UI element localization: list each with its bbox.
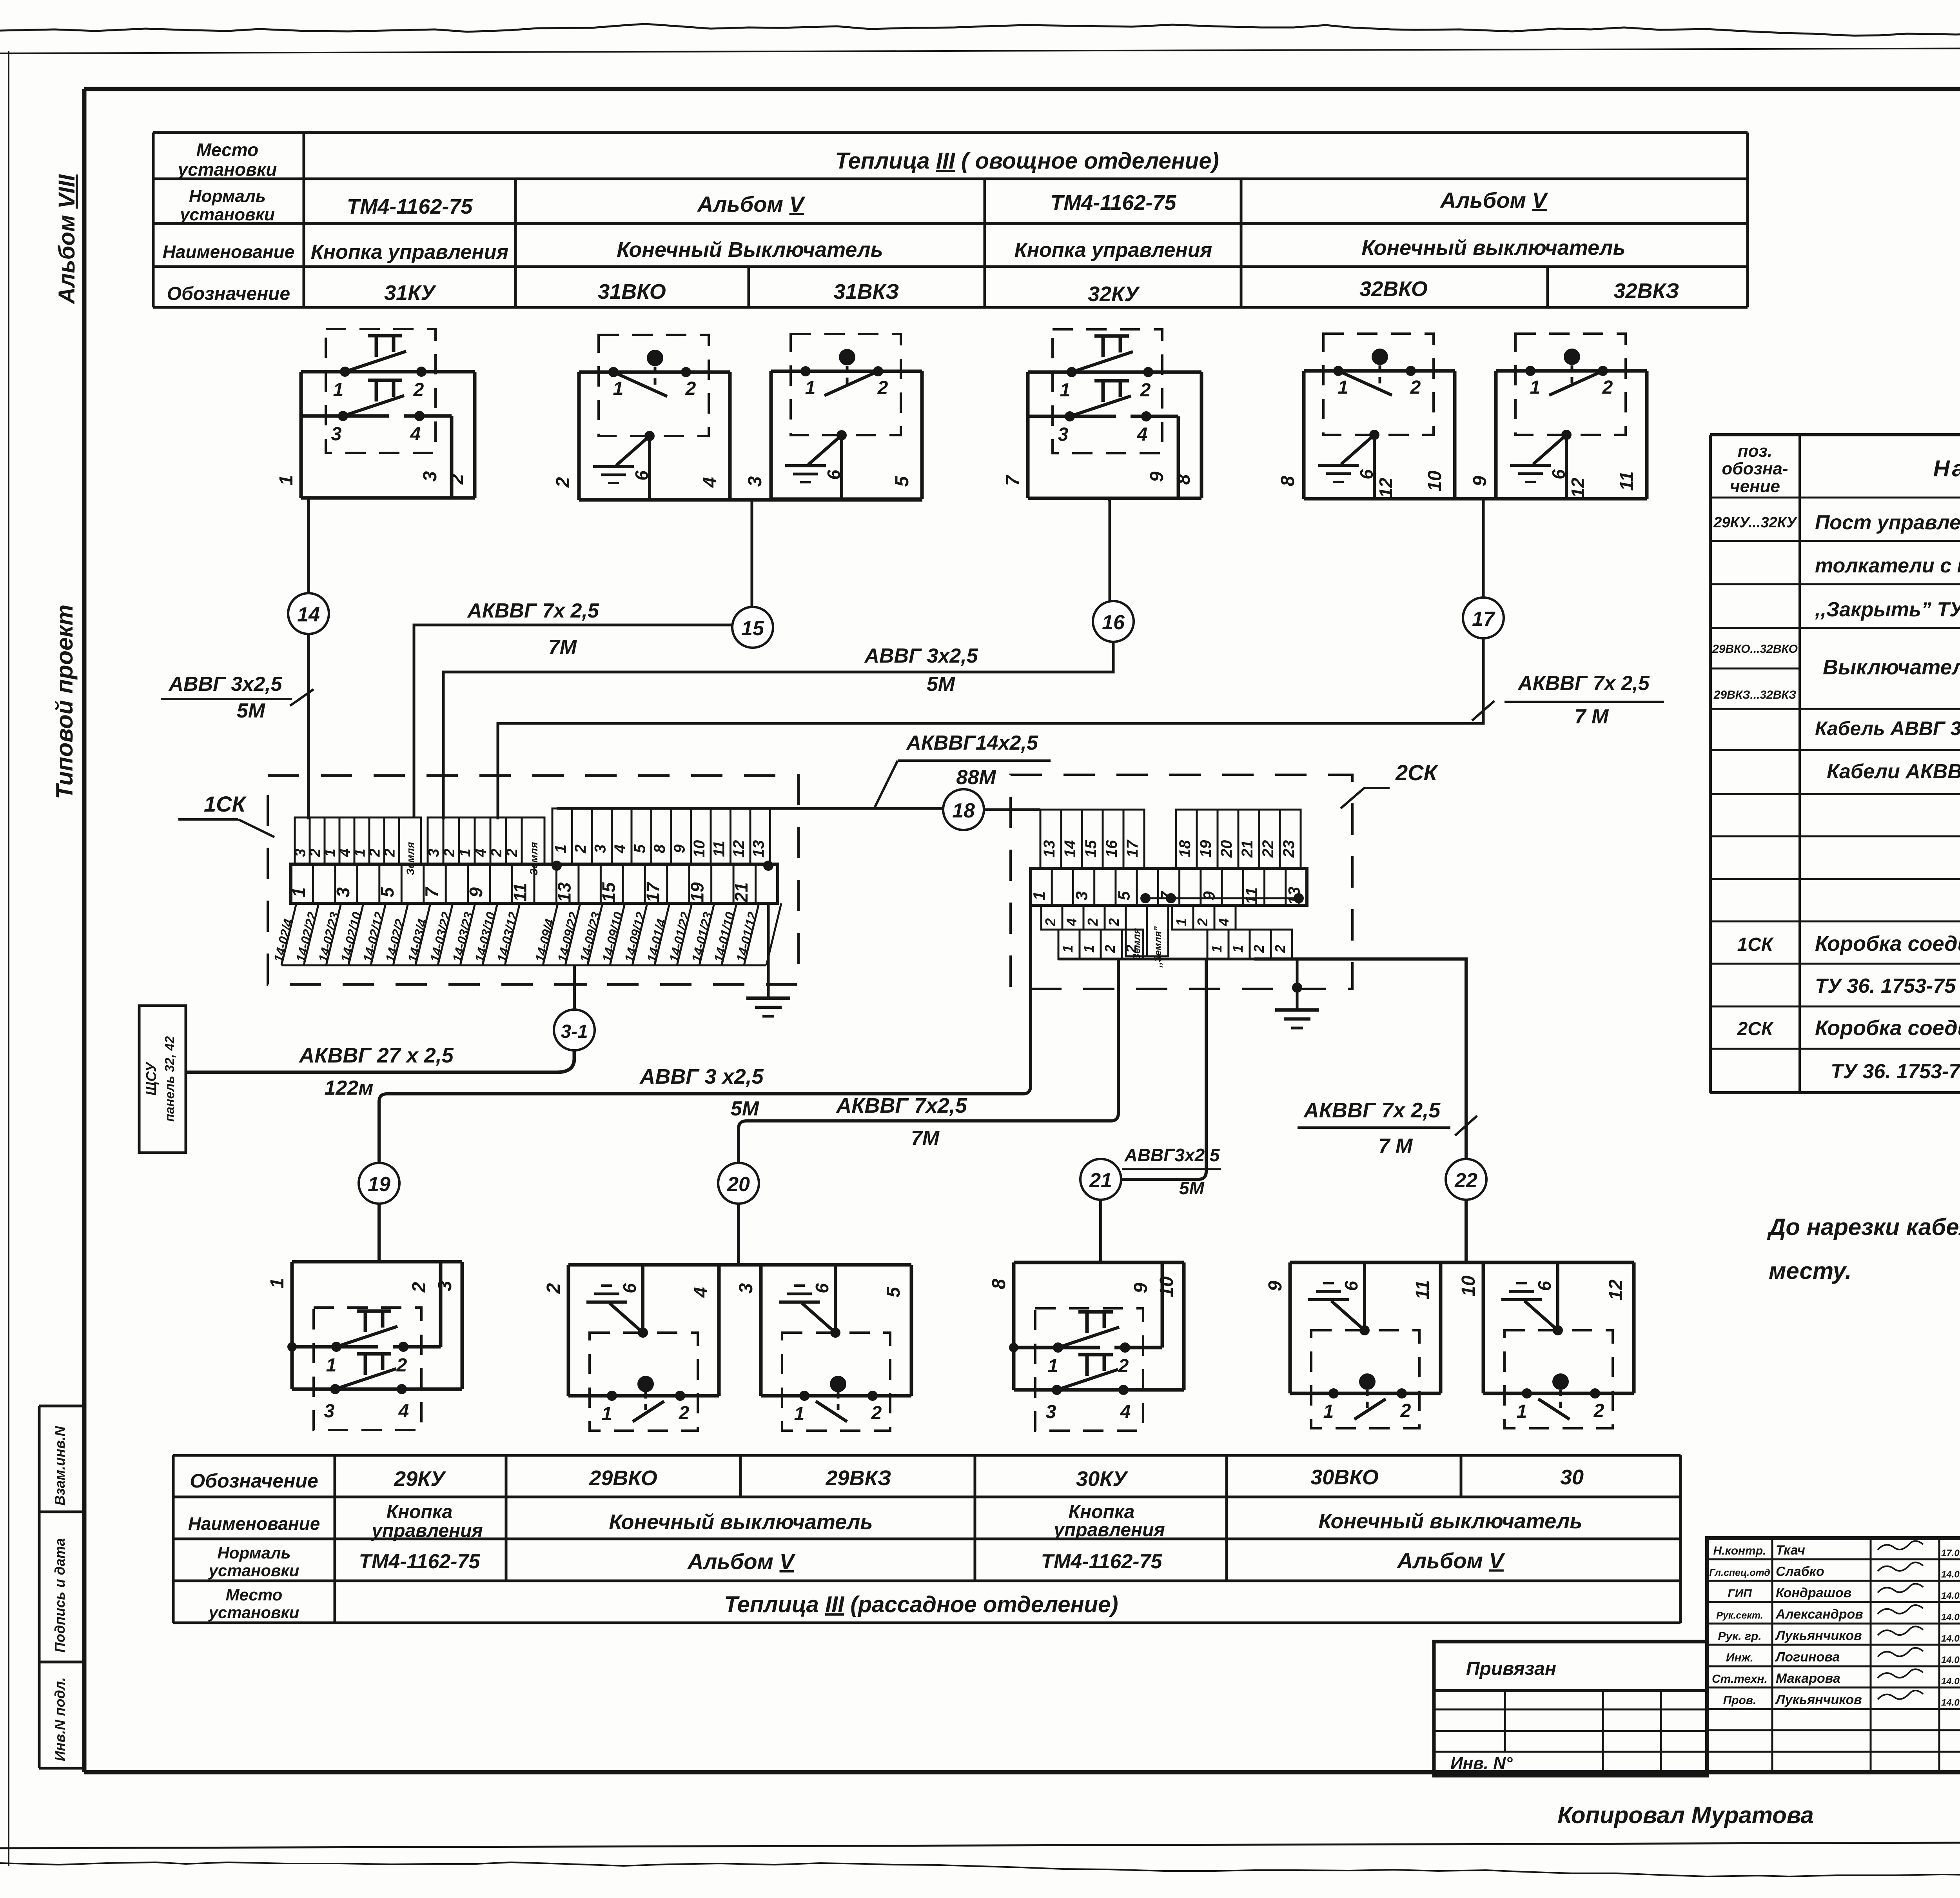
svg-text:17: 17 <box>1124 839 1141 857</box>
svg-text:2: 2 <box>1593 1400 1604 1421</box>
node 22 <box>1446 1159 1486 1200</box>
svg-text:16: 16 <box>1102 611 1125 634</box>
svg-text:14-09/12: 14-09/12 <box>622 910 648 964</box>
svg-text:Конечный выключатель: Конечный выключатель <box>1318 1509 1582 1533</box>
svg-text:2: 2 <box>679 1403 690 1424</box>
svg-text:1: 1 <box>1060 945 1076 953</box>
svg-text:14-09/23: 14-09/23 <box>577 910 603 963</box>
svg-text:4: 4 <box>691 1287 711 1298</box>
svg-text:14-01/23: 14-01/23 <box>689 910 715 963</box>
svg-text:1: 1 <box>602 1404 612 1424</box>
svg-text:1: 1 <box>1060 380 1071 401</box>
svg-text:122м: 122м <box>324 1077 373 1099</box>
wire 15 <box>751 499 753 607</box>
svg-text:2: 2 <box>409 1282 430 1293</box>
svg-text:21: 21 <box>731 882 751 903</box>
svg-text:88М: 88М <box>956 766 996 789</box>
svg-text:5М: 5М <box>237 699 266 722</box>
svg-text:Коробка соединительная КСК-32: Коробка соединительная КСК-32 <box>1815 932 1960 955</box>
svg-text:6: 6 <box>1341 1281 1361 1291</box>
svg-text:8: 8 <box>1278 476 1298 486</box>
svg-text:12: 12 <box>730 840 748 858</box>
svg-text:1: 1 <box>352 848 368 857</box>
wire 17 <box>1482 499 1485 598</box>
svg-text:3: 3 <box>592 845 609 853</box>
svg-text:3-1: 3-1 <box>561 1021 588 1042</box>
svg-text:поз.: поз. <box>1738 441 1772 461</box>
svg-text:14-09/22: 14-09/22 <box>555 910 581 964</box>
left frame stamp column <box>39 1405 84 1408</box>
svg-text:Нормаль: Нормаль <box>189 187 266 206</box>
svg-text:2: 2 <box>382 848 398 857</box>
svg-text:31КУ: 31КУ <box>384 281 436 305</box>
limit switch 30VKO <box>1290 1261 1441 1264</box>
svg-text:Пров.: Пров. <box>1723 1694 1757 1707</box>
svg-text:15: 15 <box>1082 840 1100 857</box>
svg-text:32КУ: 32КУ <box>1088 282 1140 306</box>
svg-text:Наименование: Наименование <box>1933 456 1960 481</box>
svg-text:19: 19 <box>687 882 707 903</box>
push-button station 29KU <box>292 1260 462 1264</box>
svg-text:До нарезки кабелей длины трасс: До нарезки кабелей длины трасс уточнить … <box>1767 1214 1960 1240</box>
svg-text:15: 15 <box>741 617 764 640</box>
svg-text:1: 1 <box>322 848 339 857</box>
svg-text:Слабко: Слабко <box>1776 1564 1824 1579</box>
svg-text:1: 1 <box>457 848 474 857</box>
limit switch 29VKZ <box>761 1263 911 1267</box>
svg-text:Ткач: Ткач <box>1776 1543 1805 1558</box>
svg-text:5М: 5М <box>1179 1178 1205 1198</box>
svg-text:Земля: Земля <box>528 842 540 875</box>
svg-text:29КУ: 29КУ <box>394 1467 446 1491</box>
svg-text:6: 6 <box>632 470 652 481</box>
svg-text:2: 2 <box>488 848 505 857</box>
svg-text:2СК: 2СК <box>1395 760 1439 785</box>
svg-text:6: 6 <box>1548 469 1569 479</box>
svg-text:Земля: Земля <box>405 842 416 875</box>
1SK upper cells group A <box>295 817 310 864</box>
svg-text:Коробка соединительная КСК-16: Коробка соединительная КСК-16 <box>1815 1016 1960 1040</box>
svg-text:Лукьянчиков: Лукьянчиков <box>1775 1628 1862 1643</box>
node 14 <box>288 593 329 634</box>
svg-text:7 М: 7 М <box>1379 1135 1413 1157</box>
push-button station 31KU <box>301 370 475 374</box>
svg-text:1СК: 1СК <box>204 792 247 816</box>
wire: top link 30VKO-30 <box>1290 1261 1632 1264</box>
svg-text:Альбом V: Альбом V <box>1396 1548 1505 1573</box>
svg-text:9: 9 <box>466 887 486 897</box>
wire 2SK to node 21 <box>1121 959 1206 1179</box>
svg-text:управления: управления <box>371 1520 483 1541</box>
svg-text:установки: установки <box>208 1603 299 1622</box>
svg-text:3: 3 <box>331 424 342 445</box>
svg-text:7 М: 7 М <box>1575 705 1609 728</box>
svg-text:4: 4 <box>410 424 421 445</box>
svg-text:Кнопка управления: Кнопка управления <box>311 241 508 263</box>
svg-text:2: 2 <box>543 1283 564 1294</box>
wire: top link 29VKO-29VKZ <box>568 1263 909 1267</box>
svg-text:14-09/10: 14-09/10 <box>599 910 626 964</box>
svg-text:1: 1 <box>1030 891 1048 900</box>
svg-text:14.01.86: 14.01.86 <box>1941 1569 1960 1580</box>
svg-text:8: 8 <box>989 1279 1009 1289</box>
upper location table <box>153 131 1748 134</box>
paper torn bottom edge <box>0 1862 1960 1876</box>
lower location table <box>173 1454 1681 1457</box>
svg-text:12: 12 <box>1568 478 1588 498</box>
svg-text:1СК: 1СК <box>1737 934 1774 955</box>
svg-text:2: 2 <box>871 1403 882 1424</box>
svg-text:Взам.инв.N: Взам.инв.N <box>52 1426 68 1506</box>
cabinet ShchSU <box>139 1006 186 1153</box>
node 16 <box>1093 601 1134 642</box>
svg-text:Альбом VIII: Альбом VIII <box>54 174 80 305</box>
svg-text:5: 5 <box>883 1286 904 1297</box>
svg-text:3: 3 <box>435 1280 456 1291</box>
svg-text:9: 9 <box>1131 1282 1151 1293</box>
svg-text:Типовой проект: Типовой проект <box>51 605 78 799</box>
svg-text:29КУ...32КУ: 29КУ...32КУ <box>1713 514 1798 531</box>
svg-text:2: 2 <box>1140 380 1151 401</box>
svg-text:Рук.сект.: Рук.сект. <box>1716 1610 1763 1621</box>
svg-text:3: 3 <box>292 848 309 857</box>
svg-text:1: 1 <box>794 1404 805 1424</box>
svg-text:2: 2 <box>1106 918 1122 926</box>
svg-text:18: 18 <box>952 799 975 822</box>
svg-text:17: 17 <box>1472 608 1495 630</box>
svg-text:17: 17 <box>642 881 663 903</box>
node 20 <box>718 1163 759 1204</box>
svg-text:ТУ 36. 1753-75: ТУ 36. 1753-75 <box>1831 1060 1960 1083</box>
svg-text:13: 13 <box>750 840 767 858</box>
svg-text:19: 19 <box>1197 840 1214 857</box>
wire stub <box>307 498 310 500</box>
svg-text:5: 5 <box>892 476 913 487</box>
wire 16 <box>1109 498 1111 601</box>
svg-text:13: 13 <box>554 882 575 903</box>
svg-text:21: 21 <box>1089 1169 1112 1192</box>
svg-text:6: 6 <box>1534 1281 1555 1291</box>
svg-text:АКВВГ 27 х 2,5: АКВВГ 27 х 2,5 <box>298 1044 454 1067</box>
svg-text:4: 4 <box>1137 424 1148 445</box>
svg-text:1: 1 <box>805 378 816 398</box>
paper bottom inner line <box>0 1841 1960 1848</box>
svg-text:14-01/22: 14-01/22 <box>666 910 693 964</box>
svg-text:ТМ4-1162-75: ТМ4-1162-75 <box>347 195 473 218</box>
svg-text:Макарова: Макарова <box>1776 1671 1840 1686</box>
svg-text:30КУ: 30КУ <box>1076 1467 1128 1491</box>
svg-text:Выключатель конечный: Выключатель конечный <box>1823 656 1960 679</box>
svg-text:2: 2 <box>1123 945 1139 953</box>
svg-text:16: 16 <box>1103 840 1120 857</box>
node 19 <box>359 1163 399 1204</box>
svg-text:21: 21 <box>1239 840 1256 858</box>
svg-text:2: 2 <box>1410 377 1421 398</box>
svg-text:3: 3 <box>745 476 766 487</box>
svg-text:Инж.: Инж. <box>1726 1651 1753 1664</box>
limit switch 29VKO <box>568 1263 719 1267</box>
svg-text:14-03/23: 14-03/23 <box>450 910 476 963</box>
limit switch 32VKO <box>1304 369 1455 373</box>
svg-text:1: 1 <box>326 1355 337 1376</box>
svg-text:установки: установки <box>179 205 275 224</box>
svg-text:АВВГ3х2,5: АВВГ3х2,5 <box>1124 1145 1220 1165</box>
svg-text:Наименование: Наименование <box>188 1513 320 1534</box>
svg-text:1: 1 <box>1048 1356 1058 1377</box>
svg-text:5М: 5М <box>731 1097 760 1120</box>
svg-text:22: 22 <box>1454 1169 1477 1192</box>
svg-text:2: 2 <box>1102 945 1118 953</box>
2SK ground <box>1296 959 1299 1010</box>
wire 14 <box>307 498 310 819</box>
svg-text:Кабели АКВВГ ГОСТ 1508-78: Кабели АКВВГ ГОСТ 1508-78 <box>1827 760 1960 783</box>
1SK ground <box>767 903 770 998</box>
svg-text:14-02/12: 14-02/12 <box>360 910 387 964</box>
svg-text:14-03/22: 14-03/22 <box>427 910 454 964</box>
svg-text:5: 5 <box>1115 891 1133 901</box>
node 17 <box>1463 598 1504 638</box>
svg-text:20: 20 <box>727 1173 750 1196</box>
svg-text:11: 11 <box>1242 887 1261 905</box>
title block frame <box>1707 1538 1960 1772</box>
wire 1SK to node 18 <box>557 807 943 810</box>
svg-text:2: 2 <box>1042 918 1058 926</box>
svg-text:Место: Место <box>196 140 258 160</box>
svg-text:1: 1 <box>1230 945 1246 953</box>
svg-text:1: 1 <box>1173 918 1189 926</box>
1SK terminal strip main row <box>291 864 778 903</box>
wire 2SK to node 20 <box>739 959 1118 1163</box>
svg-text:установки: установки <box>177 159 277 180</box>
svg-text:14-09/4: 14-09/4 <box>532 917 557 964</box>
junction box 2SK dashed outline <box>1011 775 1352 989</box>
svg-text:1: 1 <box>1517 1401 1527 1422</box>
svg-text:7: 7 <box>421 886 442 897</box>
svg-text:2: 2 <box>1400 1400 1411 1421</box>
svg-text:Гл.спец.отд: Гл.спец.отд <box>1709 1567 1770 1578</box>
svg-text:6: 6 <box>824 470 844 480</box>
node 3-1 <box>554 1010 595 1050</box>
svg-text:14-02/4: 14-02/4 <box>271 917 296 964</box>
svg-text:,,Земля”: ,,Земля” <box>1152 926 1163 968</box>
1SK cable tail tags <box>281 903 296 965</box>
svg-text:Подпись и дата: Подпись и дата <box>52 1538 68 1653</box>
svg-text:11: 11 <box>1412 1280 1433 1300</box>
svg-text:АВВГ 3х2,5: АВВГ 3х2,5 <box>864 645 978 667</box>
svg-text:Альбом V: Альбом V <box>697 192 806 216</box>
drawing frame <box>84 87 1960 91</box>
wire: bottom link 31VKO-31VKZ <box>579 498 922 502</box>
svg-text:Нормаль: Нормаль <box>217 1544 290 1562</box>
wire 2SK to node 22 <box>1254 959 1466 1159</box>
svg-text:12: 12 <box>1376 478 1396 498</box>
svg-text:14-02/10: 14-02/10 <box>338 910 365 964</box>
svg-text:2: 2 <box>504 848 521 857</box>
wire node18 to 2SK <box>984 808 1040 811</box>
wire to node 3-1 <box>573 965 576 1010</box>
svg-text:4: 4 <box>337 848 354 857</box>
node 15 <box>732 607 773 648</box>
svg-text:5М: 5М <box>927 673 956 696</box>
svg-text:6: 6 <box>619 1283 640 1293</box>
svg-text:3: 3 <box>736 1283 757 1293</box>
svg-text:2: 2 <box>685 378 696 399</box>
1SK upper cells group B <box>428 817 443 864</box>
svg-text:Обозначение: Обозначение <box>167 283 290 304</box>
wire 17 horizontal to 1SK <box>498 638 1483 819</box>
svg-text:ГИП: ГИП <box>1728 1587 1752 1600</box>
1SK upper cells group C <box>552 808 572 864</box>
svg-text:4: 4 <box>398 1401 409 1422</box>
svg-text:2: 2 <box>1194 918 1210 926</box>
svg-text:1: 1 <box>267 1278 288 1289</box>
svg-text:Альбом V: Альбом V <box>1439 188 1548 213</box>
svg-text:32ВКО: 32ВКО <box>1359 277 1428 301</box>
svg-text:ЩСУ: ЩСУ <box>143 1061 159 1095</box>
svg-text:19: 19 <box>368 1173 390 1196</box>
svg-text:АВВГ 3 х2,5: АВВГ 3 х2,5 <box>639 1065 764 1088</box>
svg-text:Логинова: Логинова <box>1775 1650 1840 1665</box>
svg-text:4: 4 <box>1063 918 1080 926</box>
svg-text:10: 10 <box>1156 1276 1177 1297</box>
svg-text:,,Закрыть” ТУ 16, 526, 216-78: ,,Закрыть” ТУ 16, 526, 216-78 <box>1815 598 1960 621</box>
wire 2SK to node 19 <box>379 905 1031 1163</box>
svg-text:АКВВГ 7х 2,5: АКВВГ 7х 2,5 <box>1303 1099 1441 1122</box>
svg-text:22: 22 <box>1259 840 1277 858</box>
wire 16 horizontal to 1SK <box>443 642 1113 819</box>
paper top inner line <box>0 47 1960 53</box>
svg-text:14.01.86: 14.01.86 <box>1941 1612 1960 1623</box>
svg-text:5: 5 <box>631 844 648 853</box>
svg-text:11: 11 <box>710 841 728 857</box>
svg-text:Александров: Александров <box>1775 1607 1863 1622</box>
svg-text:4: 4 <box>700 477 720 488</box>
svg-text:панель 32, 42: панель 32, 42 <box>162 1036 177 1122</box>
svg-text:30ВКО: 30ВКО <box>1310 1466 1379 1489</box>
svg-text:АКВВГ 7х 2,5: АКВВГ 7х 2,5 <box>466 599 599 622</box>
svg-text:ТМ4-1162-75: ТМ4-1162-75 <box>1041 1550 1163 1573</box>
svg-text:2: 2 <box>1272 945 1288 953</box>
svg-text:9: 9 <box>1470 476 1490 486</box>
cable AKVVG 27x2,5 122m <box>186 1050 574 1072</box>
limit switch 31VKO <box>579 371 730 374</box>
svg-text:АВВГ 3х2,5: АВВГ 3х2,5 <box>168 673 282 696</box>
svg-text:13: 13 <box>1041 840 1058 858</box>
svg-text:Ст.техн.: Ст.техн. <box>1712 1673 1768 1685</box>
svg-text:АКВВГ14х2,5: АКВВГ14х2,5 <box>906 732 1038 754</box>
svg-text:4: 4 <box>1216 918 1232 926</box>
svg-text:Кабель АВВГ 3х2,5-0,66ГОСТ 164: Кабель АВВГ 3х2,5-0,66ГОСТ 16442-80 <box>1815 717 1960 739</box>
svg-text:обозна-: обозна- <box>1722 459 1788 478</box>
svg-text:4: 4 <box>473 848 489 857</box>
svg-text:2: 2 <box>441 848 458 857</box>
svg-text:29ВКО: 29ВКО <box>589 1466 657 1490</box>
svg-text:8: 8 <box>1173 474 1194 485</box>
svg-text:Альбом V: Альбом V <box>687 1549 796 1574</box>
svg-text:10: 10 <box>1425 470 1445 492</box>
svg-text:14-03/4: 14-03/4 <box>405 917 430 964</box>
svg-text:1: 1 <box>1081 945 1097 953</box>
svg-text:АКВВГ 7х2,5: АКВВГ 7х2,5 <box>835 1094 967 1117</box>
svg-text:14-03/12: 14-03/12 <box>494 910 521 964</box>
svg-text:31ВКЗ: 31ВКЗ <box>834 280 899 303</box>
svg-text:8: 8 <box>651 844 668 853</box>
svg-text:месту.: месту. <box>1769 1258 1851 1284</box>
svg-text:14-01/12: 14-01/12 <box>733 910 760 964</box>
svg-text:4: 4 <box>612 845 629 854</box>
node 21 <box>1080 1159 1121 1200</box>
svg-text:Инв.N подл.: Инв.N подл. <box>52 1677 68 1761</box>
svg-text:3: 3 <box>324 1401 335 1422</box>
svg-text:ТУ 36. 1753-75: ТУ 36. 1753-75 <box>1815 975 1956 997</box>
svg-text:14: 14 <box>1062 840 1079 858</box>
svg-text:1: 1 <box>1530 377 1541 398</box>
svg-text:29ВКЗ: 29ВКЗ <box>826 1466 891 1490</box>
svg-text:Привязан: Привязан <box>1466 1658 1556 1679</box>
svg-text:Кнопка: Кнопка <box>387 1502 453 1522</box>
svg-text:1: 1 <box>333 380 344 400</box>
wire from 18 into 1SK <box>552 861 562 871</box>
svg-text:ТМ4-1162-75: ТМ4-1162-75 <box>1051 191 1177 214</box>
limit switch 31VKZ <box>771 370 922 373</box>
svg-text:29ВКЗ...32ВКЗ: 29ВКЗ...32ВКЗ <box>1713 688 1797 701</box>
svg-text:Инв. N°: Инв. N° <box>1450 1754 1513 1773</box>
wire 15 horizontal to 1SK <box>414 625 732 817</box>
svg-text:2: 2 <box>572 845 589 854</box>
svg-text:2: 2 <box>1085 918 1101 926</box>
svg-text:Конечный Выключатель: Конечный Выключатель <box>617 238 883 262</box>
svg-text:7: 7 <box>1003 474 1024 486</box>
svg-text:11: 11 <box>1617 471 1637 491</box>
svg-text:3: 3 <box>1072 891 1091 900</box>
svg-text:31ВКО: 31ВКО <box>598 280 666 303</box>
svg-text:14-02/23: 14-02/23 <box>316 910 342 963</box>
svg-text:11: 11 <box>510 883 530 902</box>
svg-text:3: 3 <box>426 848 442 857</box>
push-button station 32KU <box>1028 371 1201 374</box>
svg-text:9: 9 <box>1265 1280 1286 1291</box>
svg-text:12: 12 <box>1606 1279 1626 1300</box>
wire stub <box>1108 498 1111 501</box>
svg-text:6: 6 <box>812 1283 832 1293</box>
svg-text:10: 10 <box>1458 1275 1479 1297</box>
svg-text:18: 18 <box>1176 840 1194 857</box>
svg-text:3: 3 <box>1046 1402 1056 1422</box>
2SK terminal strip main row <box>1031 868 1307 905</box>
svg-text:14.01.86: 14.01.86 <box>1941 1676 1960 1687</box>
svg-text:чение: чение <box>1730 477 1780 496</box>
svg-text:1: 1 <box>613 378 624 399</box>
svg-text:6: 6 <box>1356 469 1377 479</box>
svg-text:толкатели с надписями,, Открыт: толкатели с надписями,, Открыть”, <box>1815 554 1960 577</box>
svg-text:2: 2 <box>1251 945 1267 953</box>
svg-text:2: 2 <box>413 380 424 400</box>
push-button station 30KU <box>1014 1261 1184 1264</box>
svg-text:Наименование: Наименование <box>163 242 295 262</box>
binding box <box>1434 1642 1707 1776</box>
svg-text:17.01.86: 17.01.86 <box>1941 1548 1960 1558</box>
svg-text:20: 20 <box>1218 840 1235 858</box>
svg-text:32ВКЗ: 32ВКЗ <box>1614 279 1679 303</box>
svg-text:2: 2 <box>553 477 573 488</box>
svg-text:1: 1 <box>289 887 309 897</box>
svg-text:Место: Место <box>226 1586 283 1604</box>
svg-text:Копировал Муратова: Копировал Муратова <box>1557 1802 1814 1828</box>
svg-text:2: 2 <box>307 848 324 857</box>
svg-text:Теплица III (рассадное отде: Теплица III (рассадное отделение) <box>724 1592 1118 1617</box>
wire: bottom link 32VKO-32VKZ <box>1304 497 1647 501</box>
svg-text:1: 1 <box>276 475 297 486</box>
